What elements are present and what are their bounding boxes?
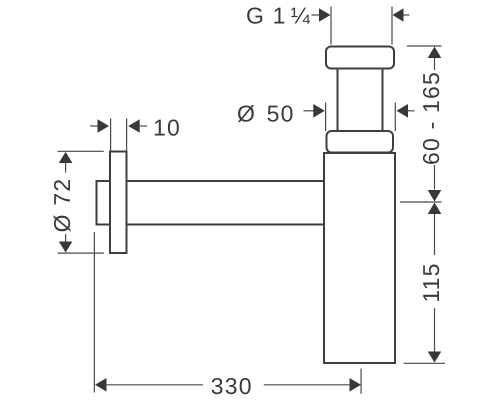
dim 60-165 lower line: [434, 165, 436, 190]
dim 72 down arrow: [59, 234, 73, 253]
dim 50 right arrow: [395, 103, 414, 132]
dim 72 bottom tick: [58, 252, 104, 254]
dim 115 down arrow: [428, 308, 442, 363]
svg-text:Ø 72: Ø 72: [49, 178, 75, 233]
dim 60-165 top tick: [407, 45, 442, 47]
label diameter 50: [237, 101, 295, 127]
dim 72 top tick: [58, 150, 104, 152]
dim 50 left arrow: [304, 103, 326, 132]
dim G right arrow: [392, 7, 410, 45]
svg-text:G 1¼: G 1¼: [246, 3, 311, 29]
inlet stub pipe: [97, 181, 111, 225]
svg-text:115: 115: [418, 262, 444, 302]
top union nut: [326, 47, 394, 69]
svg-text:10: 10: [153, 115, 181, 141]
wall flange: [110, 152, 127, 254]
dim 330 right arrow: [264, 378, 361, 392]
dim 115 upper line: [434, 214, 436, 255]
dim 115 bottom tick: [404, 362, 446, 364]
dim 10 left arrow: [90, 119, 109, 133]
dim 60-165 up arrow: [428, 47, 442, 71]
svg-text:Ø 50: Ø 50: [237, 101, 295, 127]
dim 10 extension lines: [111, 119, 127, 152]
svg-text:330: 330: [211, 373, 253, 399]
svg-text:60 - 165: 60 - 165: [418, 71, 444, 165]
dim 330 right extension: [360, 369, 362, 394]
label 60 - 165: [418, 71, 444, 165]
label G 1 1/4: [246, 3, 311, 29]
dim 72 up arrow: [59, 152, 73, 173]
dim 330 left extension: [93, 232, 95, 393]
label 330: [211, 373, 253, 399]
dim 330 left arrow: [95, 378, 203, 392]
label 115: [418, 262, 444, 302]
trap body: [324, 153, 395, 363]
range butterfly arrows: [400, 190, 442, 214]
label diameter 72: [49, 178, 75, 233]
dim G left arrow: [312, 7, 332, 45]
riser pipe: [338, 69, 383, 132]
dim 10 right arrow: [128, 119, 147, 133]
lower union nut: [327, 131, 394, 153]
label 10: [153, 115, 181, 141]
wall pipe: [127, 181, 325, 225]
